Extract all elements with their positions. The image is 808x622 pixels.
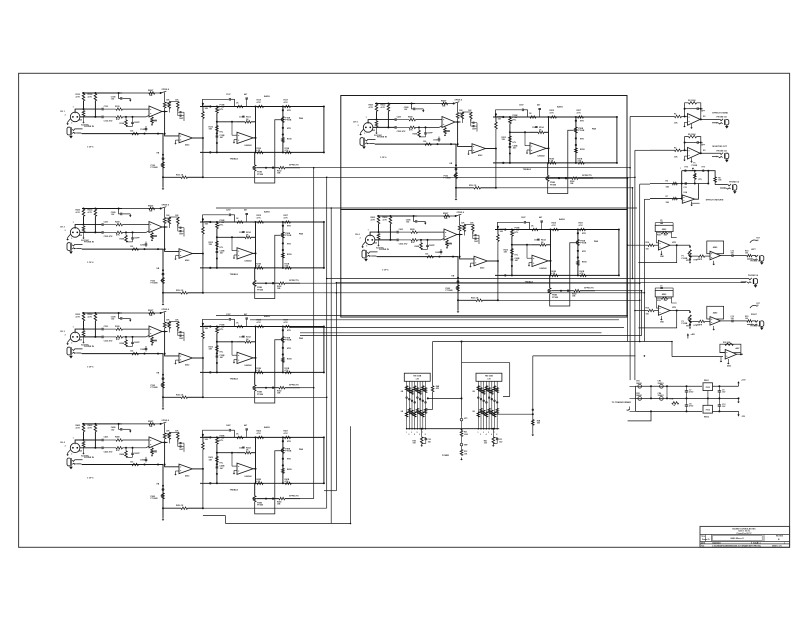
wire (CH3) [202, 327, 204, 332]
wire (harness vertical) [643, 199, 645, 341]
resistor R313 (CH3) [202, 324, 204, 332]
svg-text:HTB: HTB [580, 138, 584, 140]
wire (harness) [216, 207, 637, 209]
connector J2 pin 4 resistor b [485, 412, 488, 417]
title block row line 1 [700, 534, 790, 536]
resistor R402 (CH4) [94, 425, 97, 432]
svg-text:R416 1K: R416 1K [176, 504, 184, 507]
wire (U1B out CH1) [192, 137, 203, 139]
ground (U4C CH4) [234, 469, 237, 471]
svg-text:C102 47U: C102 47U [104, 119, 113, 122]
wire (right chain) [707, 171, 709, 184]
resistor R115 (CH1) [258, 105, 264, 108]
ground (U2C CH2) [234, 254, 237, 256]
svg-text:1 OF 6: 1 OF 6 [87, 147, 94, 149]
wire (xfmr bracket) [634, 386, 636, 411]
wire (fader feed CH2) [162, 249, 164, 302]
capacitor C103 (CH1) [101, 108, 103, 111]
connector J1 pin 3 wire [411, 381, 413, 428]
svg-text:BASS: BASS [264, 426, 270, 429]
wire (harness) [203, 292, 645, 294]
output wire (MONITOR OUT) [701, 152, 720, 154]
wire (CH5) [509, 124, 511, 163]
svg-text:OPSW A: OPSW A [162, 204, 170, 207]
potentiometer P7 (effects return) [690, 170, 697, 172]
potentiometer P11 (CH1) [216, 107, 219, 113]
resistor R619 (CH6) [540, 244, 546, 247]
wire (fader out RIGHT) [690, 320, 698, 322]
wire (CH4) [202, 437, 204, 442]
svg-text:1 OF 6: 1 OF 6 [87, 367, 94, 369]
wire (mic + CH3) [75, 329, 101, 332]
resistor R10 (effects return) [714, 177, 717, 182]
wire (CH4) [177, 442, 179, 447]
svg-text:EFFECTS SEND: EFFECTS SEND [712, 112, 728, 114]
svg-text:1N4001: 1N4001 [636, 382, 642, 385]
resistor R318 (CH3) [216, 346, 219, 352]
wire (mid CH2) [217, 236, 237, 238]
title block [700, 526, 790, 547]
wire (CH1) [177, 111, 179, 116]
wire (mic - CH2) [80, 231, 102, 233]
switch OPSW A (CH2) [161, 207, 167, 209]
svg-text:PHONE IN: PHONE IN [84, 126, 94, 128]
ground (XLR shell CH6) [363, 242, 366, 245]
svg-text:RMUT: RMUT [148, 421, 154, 423]
wire (CH5) [458, 122, 472, 146]
svg-text:R31B: R31B [287, 358, 292, 360]
resistor R222a (CH2) [257, 267, 263, 270]
title block cell line b [710, 535, 712, 542]
potentiometer P63 fader (CH6) [457, 285, 460, 291]
resistor R43 [460, 450, 463, 456]
resistor R207b rail (CH2) [149, 207, 155, 210]
op-amp U4 (RIGHT) [658, 306, 670, 316]
wire (harness) [203, 396, 327, 398]
svg-text:15K: 15K [209, 349, 213, 351]
op-amp U3C (CH3) [237, 352, 253, 363]
svg-text:4562: 4562 [185, 475, 189, 478]
svg-text:HTB: HTB [672, 242, 676, 244]
wire (U4 out LEFT) [670, 244, 677, 246]
capacitor C410 (CH4) [179, 445, 181, 447]
diode CR4 [660, 397, 664, 401]
resistor R208 (CH2) [125, 235, 128, 242]
svg-text:447: 447 [244, 93, 247, 96]
resistor R218 (CH2) [216, 241, 219, 247]
wire (CH1) [126, 125, 133, 127]
capacitor CF (EFFECTS SEND) [696, 107, 698, 110]
wire (tone rail CH2) [200, 221, 324, 223]
wire (rail ext CH2) [122, 208, 161, 210]
svg-text:PHONE 1/4: PHONE 1/4 [748, 274, 759, 277]
svg-text:4.7K: 4.7K [257, 101, 262, 104]
wire (rail +raw) [635, 385, 702, 387]
resistor R607 (CH6) [427, 255, 434, 258]
svg-text:15K: 15K [209, 244, 213, 246]
svg-text:C302 47U: C302 47U [104, 339, 113, 342]
svg-text:R51B: R51B [580, 149, 585, 151]
wire (CH5) [470, 122, 472, 127]
diode CR2 [638, 397, 642, 401]
resistor R607b rail (CH6) [444, 215, 450, 218]
capacitor C214 (CH2) [242, 231, 244, 233]
svg-text:10K: 10K [154, 340, 158, 342]
svg-text:1 OF 6: 1 OF 6 [382, 270, 389, 272]
wire (CH5) [578, 177, 593, 179]
ground (LED) [461, 458, 463, 459]
channel 6 enclosure box [341, 210, 627, 318]
ground (XLR shell CH4) [68, 450, 71, 453]
diode CR3 [660, 384, 664, 388]
resistor R105 (CH1) [116, 108, 123, 111]
ground (U3B CH3) [176, 359, 180, 361]
svg-text:4.7K: 4.7K [76, 426, 81, 429]
svg-text:LM4562: LM4562 [538, 155, 545, 158]
op-amp U1C (CH1) [237, 132, 253, 143]
op-amp U6B (CH6) [474, 256, 487, 266]
capacitor C611 (CH6) [497, 221, 523, 223]
wire (CH1) [83, 101, 85, 109]
wire (harness vertical) [225, 516, 227, 524]
wire (U6B out CH6) [487, 260, 498, 262]
connector J2 pin 5 resistor a [488, 388, 491, 393]
resistor R622b (CH6) [580, 274, 586, 277]
wire (U7) [720, 351, 725, 353]
svg-text:4.7K: 4.7K [76, 95, 81, 98]
switch OPSW A (CH1) [161, 91, 167, 93]
wire (CH4) [165, 442, 179, 466]
svg-text:FT100B: FT100B [151, 283, 159, 285]
connector J2 pin 7 contact [494, 400, 496, 402]
resistor R207 (CH2) [132, 248, 139, 251]
connector J1 pin 6 wire [419, 381, 421, 428]
mute arrow (CH5) [422, 109, 424, 110]
svg-text:FT00B: FT00B [257, 174, 264, 176]
capacitor C113 (CH1) [216, 135, 219, 137]
connector J1 pin 1 wire [406, 381, 408, 428]
resistor R322b (CH3) [285, 371, 291, 374]
svg-text:.047: .047 [220, 467, 224, 470]
op-amp U4 (LEFT) [658, 240, 670, 250]
wire (tone rail CH4) [200, 436, 324, 438]
ground (XLR shell CH5) [361, 129, 364, 132]
capacitor C210 (CH2) [179, 230, 181, 232]
svg-text:470U: 470U [689, 391, 694, 394]
resistor R18 (LEFT) [747, 254, 752, 257]
wire (CH3) [202, 358, 204, 397]
input wire row3 (effects return) [650, 198, 682, 200]
connector J2 pin 5 junction [488, 428, 490, 430]
potentiometer P53 fader (CH5) [455, 173, 458, 179]
wire (U5 out RIGHT) [721, 320, 732, 322]
resistor R410 (CH4) [164, 423, 166, 433]
wire (to fader LEFT) [677, 244, 690, 246]
resistor R107 (CH1) [132, 132, 139, 135]
svg-text:8000 Mixer II: 8000 Mixer II [730, 538, 743, 540]
connector J1 pin 2 wire [408, 381, 410, 428]
resistor R409 (CH4) [151, 446, 153, 448]
capacitor C306 mute (CH3) [118, 312, 120, 314]
wire (jack CH1) [82, 133, 163, 135]
svg-text:3: 3 [483, 432, 484, 434]
wire (CH6) [421, 248, 428, 250]
connector J2 pin 3 resistor b [482, 410, 485, 415]
capacitor C409 (CH4) [179, 442, 181, 444]
ground (U7 a) [720, 357, 722, 360]
connector J2 pin 7 resistor a [493, 386, 496, 391]
wire (harness) [300, 332, 602, 334]
drawing sheet border [19, 73, 790, 547]
resistor R5F 100K (MONITOR OUT) [689, 135, 697, 138]
capacitor C21 (J2 term) [493, 438, 497, 439]
wire (rail ext CH3) [122, 312, 161, 314]
wire (pan chain CH1) [282, 107, 284, 153]
capacitor C605 (CH6) [396, 239, 398, 242]
resistor R44 [432, 373, 434, 386]
wire (effects row CH3) [265, 387, 267, 389]
wire (effects row CH1) [265, 167, 267, 169]
connector J1 pin 4 resistor b [413, 412, 416, 417]
resistor R511 (CH5) [461, 112, 464, 119]
potentiometer P42 PAN (CH4) [282, 447, 285, 453]
svg-text:HTB: HTB [582, 233, 586, 235]
resistor R224 (CH2) [279, 282, 285, 285]
resistor R110 (CH1) [164, 92, 166, 102]
svg-text:PHONE 1/4: PHONE 1/4 [750, 259, 761, 262]
capacitor C9 (filter-) [685, 404, 688, 406]
resistor R211 (CH2) [168, 217, 171, 224]
output wire (EFFECTS SEND) [701, 118, 720, 120]
resistor R401 (CH4) [82, 425, 85, 432]
svg-text:4.7K: 4.7K [284, 432, 289, 435]
resistor R612 (CH6) [472, 225, 475, 232]
svg-text:FT00B: FT00B [550, 184, 557, 186]
svg-text:7: 7 [422, 432, 423, 434]
connector J2 pin 1 junction [478, 428, 480, 430]
connector XLR CH3 [70, 332, 80, 342]
wire (CH1) [216, 113, 218, 152]
pan chain contact (CH3) [282, 347, 284, 349]
ground (U1B CH1) [176, 139, 180, 141]
svg-text:100: 100 [423, 141, 426, 143]
wire (harness vertical) [632, 188, 634, 279]
svg-text:C5: C5 [660, 286, 662, 288]
resistor R421 (CH4) [282, 468, 285, 473]
wire (top rail CH4) [82, 423, 122, 425]
feedback resistor (U7) [725, 343, 734, 346]
pan chain contact (CH1) [282, 127, 284, 129]
svg-text:5: 5 [488, 432, 489, 434]
svg-text:PHONE 1/4: PHONE 1/4 [750, 325, 761, 328]
capacitor C608 (CH6) [440, 250, 443, 252]
svg-text:4.7K: 4.7K [550, 112, 555, 115]
svg-text:2: 2 [480, 434, 481, 436]
resistor R605 (CH6) [411, 231, 418, 234]
capacitor C314 (CH3) [242, 335, 244, 337]
resistor R608 (CH6) [420, 243, 423, 250]
wire (loopback LEFT) [638, 245, 676, 262]
svg-text:EFFECTS: EFFECTS [584, 288, 594, 290]
ground (U7 b) [727, 359, 729, 362]
ground (0V rail) [738, 398, 740, 400]
input wire row2 (effects return) [650, 183, 708, 185]
svg-text:C5: C5 [660, 220, 662, 222]
svg-text:FT100B: FT100B [151, 387, 159, 389]
wire (J2 loop) [462, 363, 510, 397]
svg-text:PHONE 1/4: PHONE 1/4 [729, 180, 740, 183]
wire (send row CH3) [162, 396, 164, 398]
connector J2 pin 2 resistor b [480, 408, 483, 413]
wire (harness) [533, 355, 636, 357]
potentiometer P32 PAN (CH3) [282, 337, 285, 343]
title block cell line e [757, 542, 759, 544]
svg-text:P1: P1 [693, 163, 695, 165]
wire (fader feed CH4) [162, 465, 164, 518]
potentiometer P51 (CH5) [509, 118, 512, 124]
resistor R601 (CH6) [377, 217, 380, 224]
svg-text:4562: 4562 [727, 365, 731, 368]
resistor R216 (CH2) [285, 221, 291, 224]
wire (pan return CH3) [255, 340, 281, 403]
capacitor C107 (CH1) [131, 121, 134, 123]
wire (CH1) [202, 138, 204, 177]
input resistor R6 (effects return) [672, 182, 677, 185]
resistor R307 (CH3) [132, 352, 139, 355]
svg-text:4.7K: 4.7K [383, 218, 388, 221]
svg-text:4.7K: 4.7K [285, 369, 290, 372]
wire (U5B out CH5) [485, 148, 496, 150]
switch OPSW A (CH5) [454, 102, 460, 104]
connector J1 pin 2 junction [409, 428, 411, 430]
svg-text:10: 10 [757, 240, 759, 242]
svg-text:10K: 10K [470, 222, 474, 224]
svg-text:10K: 10K [175, 319, 179, 321]
svg-text:LM4562: LM4562 [245, 144, 252, 147]
wire (harness vertical) [313, 168, 315, 499]
resistor R603 (CH6) [377, 234, 380, 240]
svg-text:HSFR: HSFR [697, 259, 703, 261]
mute arrow (CH2) [129, 214, 131, 215]
capacitor C15 (effects return) [684, 182, 686, 185]
effects pot P14 (CH1) [254, 152, 256, 165]
capacitor C8 (filter+) [685, 390, 688, 392]
switch OPSW A (CH4) [161, 422, 167, 424]
wire (harness) [635, 310, 648, 312]
wire (harness) [203, 507, 327, 509]
svg-text:FT00B: FT00B [285, 340, 292, 342]
switch OPSW A (CH6) [456, 214, 462, 216]
svg-text:4.7K: 4.7K [256, 149, 261, 152]
svg-text:1: 1 [784, 542, 785, 544]
connector J1 pin 1 resistor b [405, 412, 408, 417]
svg-text:100PF: 100PF [429, 245, 436, 247]
svg-text:10K: 10K [674, 157, 678, 159]
connector J2 pin 8 resistor b [496, 408, 499, 413]
wire (LEFT) [657, 232, 659, 243]
capacitor C310 (CH3) [179, 335, 181, 337]
wire (pan chain CH3) [282, 327, 284, 373]
connector J1 pin 1 resistor a [405, 386, 408, 391]
capacitor CF (MONITOR OUT) [696, 141, 698, 144]
wire (U6C out CH6) [548, 260, 550, 262]
svg-text:820: 820 [79, 119, 82, 121]
resistor R123 (CH1) [181, 176, 188, 179]
wire (U4C out CH4) [253, 468, 255, 470]
svg-text:RMUT: RMUT [148, 310, 154, 312]
svg-text:P100B: P100B [692, 165, 698, 167]
svg-text:820: 820 [79, 339, 82, 341]
op-amp U2B (CH2) [179, 249, 192, 259]
op-amp U1A (CH1) [149, 106, 162, 117]
wire (pan chain CH6) [577, 230, 579, 276]
connector J2 pin 2 wire [480, 381, 482, 428]
ground (U5 LEFT) [713, 261, 715, 263]
svg-text:100PF: 100PF [134, 342, 141, 344]
capacitor C203 (CH2) [101, 223, 103, 226]
svg-text:FT00B: FT00B [285, 235, 292, 237]
connector J2 pin 4 resistor a [485, 386, 488, 391]
wire (harness) [496, 187, 633, 189]
wire (harness vertical) [432, 342, 434, 373]
svg-text:4.7K: 4.7K [76, 211, 81, 214]
wire (fader feed CH5) [455, 144, 457, 197]
wire (harness) [593, 177, 628, 179]
ground (opamp + MONITOR OUT) [685, 155, 688, 157]
+48V arrow (phantom feed) [687, 335, 689, 338]
svg-text:BASS: BASS [264, 211, 270, 214]
wire (harness) [327, 278, 749, 280]
capacitor C110 (CH1) [179, 115, 181, 117]
connector J1 pin 8 junction [425, 428, 427, 430]
svg-text:1: 1 [73, 437, 74, 439]
svg-text:EFFECTS: EFFECTS [582, 175, 592, 177]
ground (opamp MONITOR OUT) [691, 158, 693, 160]
capacitor C209 (CH2) [179, 227, 181, 229]
capacitor C510 (CH5) [472, 125, 474, 127]
wire (pan chain CH2) [282, 222, 284, 268]
connector XLR CH2 [70, 228, 80, 238]
connector J1 pin 1 contact [406, 397, 408, 399]
wire (CH4) [232, 465, 237, 467]
svg-text:4562: 4562 [185, 364, 189, 367]
svg-text:820: 820 [79, 450, 82, 452]
svg-text:L200: L200 [464, 434, 468, 436]
wire (harness vertical) [629, 117, 631, 381]
capacitor C12 (LEFT) [731, 254, 733, 257]
resistor R205 (CH2) [116, 223, 123, 226]
svg-text:CH 1: CH 1 [60, 111, 66, 113]
svg-text:PAN: PAN [592, 128, 597, 131]
capacitor C505 (CH5) [394, 126, 396, 129]
svg-text:RM 100B: RM 100B [485, 375, 493, 377]
resistor R314 (CH3) [237, 325, 243, 328]
svg-text:1: 1 [366, 117, 367, 119]
svg-text:10K: 10K [154, 451, 158, 453]
op-amp U3 (effects return) [682, 195, 694, 203]
connector J1 pin 7 junction [422, 428, 424, 430]
wire (CH4) [126, 456, 133, 458]
op-amp U4C (CH4) [237, 463, 253, 474]
svg-text:10K: 10K [175, 430, 179, 432]
wire (CH3) [177, 331, 179, 336]
svg-text:.047: .047 [513, 147, 517, 150]
connector J2 pin 2 contact [480, 398, 482, 400]
potentiometer P22 PAN (CH2) [282, 232, 285, 238]
svg-text:4.7K: 4.7K [285, 265, 290, 268]
connector phone jack (CH6) [362, 250, 365, 258]
svg-text:PHONE IN: PHONE IN [379, 249, 389, 251]
